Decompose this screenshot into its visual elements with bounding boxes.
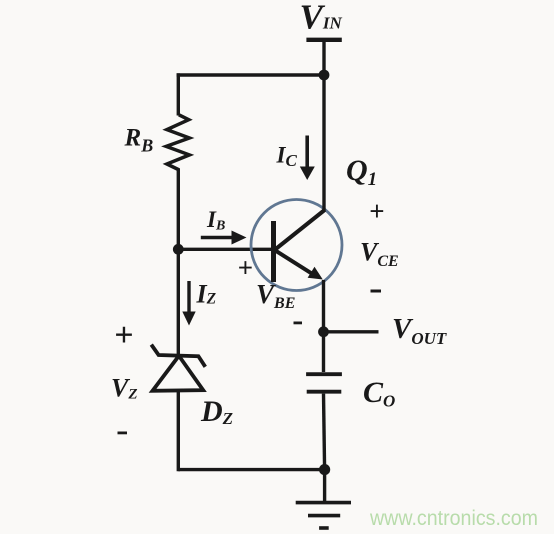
wire emitter vertical: [322, 280, 325, 332]
arrow I_B: [201, 236, 234, 240]
capacitor C_O bottom plate: [307, 390, 342, 394]
label V_BE minus: [294, 322, 303, 325]
node VIN terminal bar: [306, 38, 341, 42]
transistor Q1 circle: [251, 200, 342, 291]
junction dot VOUT node: [318, 326, 329, 337]
arrow I_Z: [187, 281, 190, 313]
wire VIN stub: [322, 41, 325, 75]
wire base horizontal: [178, 248, 273, 251]
junction dot ground node: [319, 464, 330, 475]
svg-text:Q1: Q1: [346, 154, 377, 190]
svg-text:www.cntronics.com: www.cntronics.com: [369, 507, 538, 530]
zener diode D_Z cathode bar: [151, 345, 205, 367]
junction dot base node: [173, 244, 184, 255]
label V_Z minus: [118, 432, 128, 435]
svg-text:+: +: [238, 253, 253, 283]
label V_CE minus: [371, 290, 382, 293]
capacitor C_O top plate: [306, 372, 342, 376]
ground: [296, 501, 351, 505]
arrow I_C: [305, 136, 309, 169]
svg-text:VCE: VCE: [360, 238, 399, 271]
transistor Q1 emitter line with arrow: [275, 250, 314, 274]
wire VOUT horizontal: [324, 330, 379, 333]
svg-text:IZ: IZ: [196, 280, 217, 309]
svg-text:CO: CO: [363, 376, 395, 411]
wire left top: [177, 73, 180, 115]
wire to ground: [323, 470, 326, 503]
zener diode D_Z triangle: [153, 356, 204, 391]
wire VOUT node to capacitor: [322, 332, 325, 372]
svg-text:IB: IB: [206, 207, 225, 234]
svg-text:RB: RB: [124, 125, 154, 156]
junction dot VIN node: [319, 70, 330, 81]
wire zener to bottom: [177, 390, 180, 471]
wire bottom horizontal: [178, 468, 324, 471]
transistor Q1 collector line: [275, 210, 325, 250]
svg-text:VIN: VIN: [300, 0, 343, 37]
svg-text:+: +: [369, 196, 384, 226]
resistor R_B: [166, 115, 189, 170]
svg-text:VZ: VZ: [111, 374, 138, 403]
wire left mid (resistor to base node): [177, 169, 180, 250]
wire collector vertical: [322, 75, 325, 212]
svg-text:DZ: DZ: [200, 395, 233, 428]
wire top horizontal: [177, 73, 324, 76]
svg-text:IC: IC: [276, 143, 298, 171]
svg-text:+: +: [114, 317, 133, 354]
transistor Q1 base bar: [271, 221, 276, 282]
wire base node to zener: [177, 249, 180, 356]
svg-text:VOUT: VOUT: [392, 313, 447, 348]
wire capacitor to bottom node: [324, 394, 325, 470]
